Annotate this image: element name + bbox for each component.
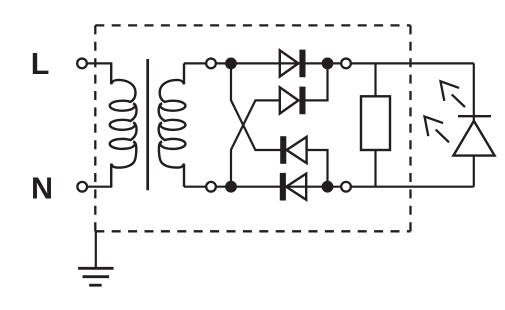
LED light arrow lower [425,117,450,143]
wire cross link top-to-D3 [231,63,281,150]
terminal N open circle [77,182,87,192]
terminal L open circle [77,59,87,69]
transformer T1 core [146,59,149,190]
wire D3 anode to bottom rail [306,150,328,187]
enclosure dashed box [95,25,410,231]
resistor R1 [361,63,390,187]
ground [78,230,113,285]
secondary top open circle [206,59,216,69]
wire D2 cathode to top rail [305,63,328,100]
wire top rail [184,62,474,64]
diode D4 [280,173,306,201]
diode D1 [280,50,306,78]
svg-text:L: L [31,47,50,81]
wire L terminal to primary [87,62,113,64]
transformer T1 primary winding [110,63,137,186]
wire N terminal to primary [87,186,113,188]
transformer T1 secondary winding [159,63,186,186]
secondary bottom open circle [206,182,216,192]
wire cross link bottom-to-D2 [231,100,281,186]
junction dot bottom right [322,181,334,193]
diode D3 [280,136,306,164]
svg-text:N: N [31,172,53,206]
output top open circle [341,59,351,69]
LED light arrow upper [441,81,466,107]
junction dot bottom left [225,181,237,193]
junction dot top right [322,58,334,70]
diode D2 [280,87,306,115]
junction dot top left [225,58,237,70]
wire bottom rail [184,186,474,188]
LED D5 [453,63,494,186]
output bottom open circle [341,182,351,192]
